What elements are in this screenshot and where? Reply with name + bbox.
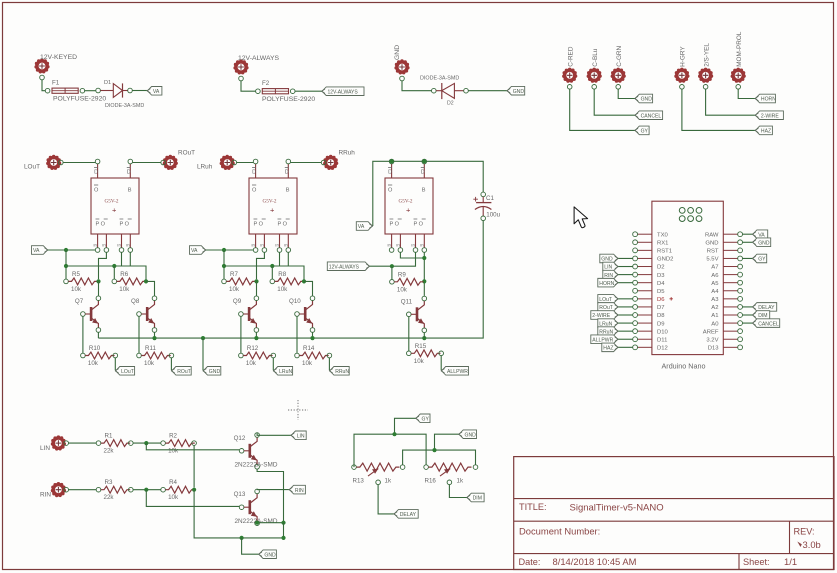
net flag GND (pots) — [459, 430, 477, 439]
svg-text:A0: A0 — [711, 321, 719, 327]
svg-text:B: B — [422, 188, 426, 194]
svg-text:RST: RST — [707, 249, 719, 255]
connector pad C-BLu — [587, 48, 602, 83]
svg-text:ALLPWR: ALLPWR — [592, 337, 613, 343]
wire Q10 base to R14 — [296, 316, 298, 353]
svg-text:10k: 10k — [119, 286, 130, 293]
wire relay K2 pin3 down — [279, 252, 281, 266]
wire 12V-ALWAYS to F2 — [241, 81, 256, 91]
net flag ALLPWR (Arduino D11) — [591, 335, 619, 344]
net flag GND (bottom left) — [258, 550, 276, 559]
wire relay K1 pin2 jog — [99, 252, 107, 279]
svg-text:F2: F2 — [262, 80, 270, 87]
wire RIN flag to Arduino pin D3 — [618, 274, 633, 276]
net flag CANCEL (C-BLu) — [635, 111, 663, 120]
net flag VA (Arduino RAW) — [752, 230, 768, 239]
capacitor C1 — [473, 192, 500, 221]
svg-text:D6: D6 — [657, 297, 665, 303]
wire R14 to RRun flag — [328, 358, 330, 371]
svg-text:10k: 10k — [168, 448, 179, 455]
svg-text:D11: D11 — [657, 337, 667, 343]
svg-text:ROuT: ROuT — [177, 369, 191, 375]
resistor R14 — [295, 345, 329, 367]
svg-text:8/14/2018 10:45 AM: 8/14/2018 10:45 AM — [553, 556, 637, 567]
svg-text:R15: R15 — [415, 343, 427, 350]
svg-text:D: D — [127, 170, 131, 176]
svg-text:H-GRY: H-GRY — [680, 46, 687, 67]
mouse cursor — [574, 207, 588, 228]
wire Q11 emitter to bus — [423, 333, 425, 339]
svg-text:Sheet:: Sheet: — [743, 557, 770, 567]
svg-text:Arduino Nano: Arduino Nano — [662, 362, 706, 371]
net flag GY (C-RED) — [635, 126, 650, 135]
svg-text:10k: 10k — [302, 360, 313, 367]
svg-text:D12: D12 — [657, 346, 668, 352]
resistor R15 — [407, 343, 441, 365]
junction R4 right — [192, 488, 196, 492]
net flag HORN (Arduino D4) — [598, 278, 619, 287]
svg-text:+: + — [112, 206, 117, 215]
svg-text:F1: F1 — [52, 80, 60, 87]
diode D2 — [420, 76, 468, 107]
resistor R8 — [270, 271, 304, 293]
pin of pad LRuh — [232, 160, 237, 165]
wire LRuN flag to Arduino pin D9 — [618, 322, 633, 324]
svg-text:ROuT: ROuT — [178, 150, 195, 157]
resistor R2 — [161, 433, 195, 455]
net flag RIN (Arduino D3) — [603, 270, 619, 279]
svg-text:SignalTimer-v5-NANO: SignalTimer-v5-NANO — [570, 503, 664, 514]
svg-text:A2: A2 — [711, 305, 718, 311]
wire R5 to Q7 collector — [98, 281, 100, 296]
svg-text:R16: R16 — [425, 478, 437, 485]
wire C-RED to GY flag — [570, 89, 635, 130]
svg-text:C1: C1 — [486, 195, 494, 202]
relay K2 G5V-2 — [249, 159, 297, 252]
supply pad GND (top) — [394, 45, 410, 75]
pin R15 right — [439, 351, 444, 356]
net flag GND (Arduino GND2) — [600, 254, 619, 263]
potentiometer R13 — [352, 463, 405, 485]
wire Q7 base to R10 — [82, 316, 84, 353]
wire Arduino pin RAW to VA flag — [743, 233, 753, 235]
wire R7 to Q9 collector — [256, 281, 258, 296]
wire junction to Q12 base — [146, 443, 239, 450]
svg-text:2-WIRE: 2-WIRE — [761, 113, 779, 119]
svg-text:Q9: Q9 — [233, 298, 242, 305]
svg-text:GND: GND — [705, 240, 718, 246]
svg-text:GND2: GND2 — [657, 257, 673, 263]
net flag RRun (channel 2) — [329, 367, 349, 376]
wire D1 to VA flag — [132, 90, 147, 92]
transistor Q9 — [233, 296, 259, 332]
svg-text:R13: R13 — [353, 478, 365, 485]
pin of 12V-ALWAYS pad — [239, 76, 244, 81]
resistor R11 — [137, 345, 171, 367]
svg-text:10k: 10k — [71, 286, 82, 293]
pots top rail — [354, 432, 426, 467]
svg-text:LOuT: LOuT — [24, 164, 40, 171]
svg-text:10k: 10k — [229, 286, 240, 293]
wire 2-WIRE flag to Arduino pin D8 — [618, 314, 633, 316]
wire VA down to R5 — [64, 250, 68, 279]
wire LIN flag to Arduino pin D2 — [618, 266, 633, 268]
transistor Q12 — [234, 433, 278, 469]
svg-text:Q8: Q8 — [131, 298, 140, 305]
svg-text:R5: R5 — [72, 271, 80, 278]
pad RRuh — [323, 150, 355, 171]
svg-text:P O: P O — [278, 222, 288, 228]
svg-text:A5: A5 — [711, 281, 719, 287]
net flag LRuN (Arduino D9) — [598, 319, 619, 328]
svg-text:2/S-YEL: 2/S-YEL — [703, 43, 710, 67]
wire GND pad to D2 — [402, 81, 432, 91]
svg-text:D9: D9 — [657, 321, 665, 327]
svg-text:100u: 100u — [486, 212, 500, 219]
svg-text:CANCEL: CANCEL — [758, 321, 779, 327]
wire rail B channel 2 — [224, 264, 304, 282]
wire Q7 emitter to bus — [97, 332, 99, 338]
svg-text:Q13: Q13 — [234, 491, 246, 498]
svg-text:D: D — [94, 170, 98, 176]
svg-text:G5V-2: G5V-2 — [263, 199, 277, 205]
net flag HORN — [755, 94, 776, 103]
svg-text:D4: D4 — [657, 281, 665, 287]
wire HAZ flag to Arduino pin D12 — [618, 346, 633, 348]
wire F2 to 12V-ALWAYS flag — [295, 90, 322, 92]
pin of pad MOM-PROL — [736, 85, 741, 90]
svg-text:D5: D5 — [657, 289, 665, 295]
wire relay K3 pin4 down — [422, 252, 426, 296]
supply pad 12V-ALWAYS — [233, 55, 279, 75]
svg-text:R9: R9 — [398, 271, 406, 278]
wire 2/S-YEL to 2-WIRE flag — [706, 89, 755, 115]
fuse F2 — [256, 80, 316, 103]
wire relay K2 pin2 jog — [257, 252, 265, 279]
wire rail B channel 1 — [66, 264, 146, 282]
wire LOuT flag to Arduino pin D6 — [618, 298, 633, 300]
wire Q9 base to R12 — [240, 316, 242, 353]
net flag DELAY (R13) — [394, 510, 419, 519]
connector pad MOM-PROL — [731, 31, 746, 83]
wire relay K2 pin4 down — [287, 252, 289, 266]
wire LOuT pad to relay K1 pin — [63, 162, 95, 164]
wire C1 down to bus — [415, 221, 484, 341]
wire R2 down to R4 node — [193, 445, 195, 487]
wire Q9 emitter to bus — [255, 332, 257, 338]
svg-text:VA: VA — [358, 224, 365, 230]
resistor R6 — [112, 271, 146, 293]
svg-text:P O: P O — [96, 222, 106, 228]
svg-text:D: D — [285, 170, 289, 176]
pad ROuT — [163, 150, 195, 171]
wire down to R9 — [391, 266, 393, 279]
svg-text:D13: D13 — [708, 346, 720, 352]
svg-text:12V-ALWAYS: 12V-ALWAYS — [328, 89, 359, 95]
junction R5 right — [96, 279, 100, 283]
wire RRuN flag to Arduino pin D10 — [618, 330, 633, 332]
svg-text:22k: 22k — [104, 448, 115, 455]
wire RIN pad to R3 — [69, 489, 97, 491]
wire relay K2 to RRuh pad — [291, 162, 322, 164]
net flag CANCEL (Arduino A0) — [752, 319, 780, 328]
svg-text:VA: VA — [33, 248, 40, 254]
svg-text:D8: D8 — [657, 313, 665, 319]
svg-text:12V-ALWAYS: 12V-ALWAYS — [329, 264, 360, 270]
transistor Q10 — [289, 296, 315, 332]
svg-text:A7: A7 — [711, 265, 718, 271]
svg-text:R6: R6 — [120, 271, 128, 278]
connector pad 2/S-YEL — [698, 43, 713, 83]
net flag LOuT (Arduino D6) — [598, 295, 619, 304]
svg-text:Q11: Q11 — [401, 298, 413, 305]
wire Arduino pin A0 to CANCEL flag — [743, 322, 753, 324]
pin of pad C-GRN — [616, 85, 621, 90]
svg-text:RRuh: RRuh — [339, 150, 356, 157]
svg-text:A3: A3 — [711, 297, 719, 303]
svg-text:D2: D2 — [657, 265, 665, 271]
svg-text:ROuT: ROuT — [599, 305, 613, 311]
svg-text:DIM: DIM — [473, 496, 482, 502]
pin of pad 2/S-YEL — [703, 85, 708, 90]
pad LOuT — [24, 155, 61, 171]
pad RIN — [40, 482, 66, 499]
svg-text:DIM: DIM — [758, 313, 767, 319]
wire bus to GND flag — [202, 338, 204, 370]
junction R8 right — [302, 279, 306, 283]
svg-text:R7: R7 — [230, 271, 238, 278]
svg-text:LRuN: LRuN — [279, 369, 292, 375]
svg-text:C-GRN: C-GRN — [616, 45, 623, 66]
svg-text:RST1: RST1 — [657, 249, 672, 255]
svg-text:2N2222A-SMD: 2N2222A-SMD — [235, 462, 278, 469]
emitter bus channel 2 — [254, 336, 414, 340]
svg-text:R4: R4 — [169, 479, 177, 486]
svg-text:GND: GND — [513, 89, 525, 95]
wire Q12 emitter down — [257, 469, 283, 523]
svg-text:VA: VA — [758, 232, 765, 238]
net flag ROuT (channel 1) — [171, 367, 191, 376]
svg-text:O: O — [388, 188, 393, 194]
wire LIN pad to R1 — [69, 442, 97, 444]
svg-text:+: + — [406, 206, 411, 215]
svg-text:O: O — [94, 188, 99, 194]
svg-text:R14: R14 — [303, 345, 315, 352]
svg-text:RRuN: RRuN — [599, 329, 613, 335]
pin of pad LOuT — [59, 160, 64, 165]
svg-text:GND: GND — [209, 369, 221, 375]
wire R16 wiper to DIM flag — [449, 485, 466, 498]
svg-text:P O: P O — [254, 222, 264, 228]
pad LIN — [40, 435, 66, 452]
svg-text:GND: GND — [641, 97, 653, 103]
svg-text:DIODE-3A-SMD: DIODE-3A-SMD — [420, 76, 459, 82]
net flag LRun (channel 2) — [273, 367, 293, 376]
net flag DIM (Arduino A1) — [752, 311, 770, 320]
svg-text:10k: 10k — [414, 358, 425, 365]
net flag GND (C-GRN) — [635, 94, 653, 103]
wire C-GRN to GND flag — [618, 89, 634, 98]
svg-text:1/1: 1/1 — [784, 556, 797, 567]
pots bottom rail — [403, 448, 476, 465]
svg-text:A1: A1 — [711, 313, 718, 319]
svg-text:B: B — [128, 188, 132, 194]
wire 12V-KEYED to F1 — [42, 80, 45, 91]
svg-text:GND: GND — [601, 257, 613, 263]
svg-text:P O: P O — [414, 222, 424, 228]
pin of pad ROuT — [161, 160, 166, 165]
wire H-GRY to HAZ flag — [682, 89, 755, 130]
wire R12 to LRun flag — [272, 358, 274, 371]
net flag HAZ (Arduino D12) — [602, 343, 619, 352]
svg-text:REV:: REV: — [794, 527, 815, 537]
svg-text:D2: D2 — [447, 101, 454, 107]
net flag ROuT (Arduino D7) — [598, 303, 619, 312]
svg-text:R11: R11 — [145, 345, 156, 352]
potentiometer R16 — [424, 463, 478, 485]
net flag VA (relay K3) — [356, 222, 373, 231]
svg-text:R1: R1 — [105, 433, 113, 440]
wire relay K3 top rail — [373, 159, 483, 226]
op-amp U1 Arduino Nano — [633, 201, 743, 370]
svg-text:Q7: Q7 — [75, 298, 84, 305]
svg-text:10k: 10k — [397, 286, 408, 293]
pin R2 right — [192, 441, 197, 446]
wire ROuT flag to Arduino pin D7 — [618, 306, 633, 308]
svg-text:5.5V: 5.5V — [706, 257, 718, 263]
wire node down to bus — [281, 523, 285, 540]
diode D1 — [96, 80, 145, 109]
title block — [514, 457, 834, 570]
resistor R12 — [239, 345, 273, 367]
svg-text:R12: R12 — [247, 345, 259, 352]
pin R14 right — [327, 353, 332, 358]
wire GND flag to pots — [435, 434, 459, 450]
pin R12 right — [271, 353, 276, 358]
pin of 12V-KEYED pad — [40, 75, 45, 80]
transistor Q13 — [234, 489, 278, 525]
pin of pad LIN — [64, 441, 69, 446]
wire R1 to junction — [133, 441, 161, 445]
pin of pad RRuh — [321, 160, 326, 165]
junction R6 right — [144, 279, 148, 283]
net flag RRuN (Arduino D10) — [598, 327, 619, 336]
wire GY flag to pots — [395, 418, 416, 434]
pad LRuh — [197, 155, 235, 171]
svg-text:10k: 10k — [246, 360, 257, 367]
wire R10 to LOuT flag — [114, 358, 116, 371]
wire R3 to junction — [133, 488, 161, 492]
svg-text:3.2V: 3.2V — [706, 337, 718, 343]
svg-text:POLYFUSE-2920: POLYFUSE-2920 — [53, 96, 106, 103]
svg-text:2-WIRE: 2-WIRE — [592, 313, 610, 319]
net flag VA (relay K2) — [190, 246, 207, 255]
wire LRuh pad to relay K2 — [237, 162, 254, 164]
wire Q13 emitter to node — [255, 521, 286, 525]
pin R11 right — [169, 353, 174, 358]
svg-text:TX0: TX0 — [657, 232, 669, 238]
wire Arduino pin A2 to DELAY flag — [743, 306, 753, 308]
wire Q8 base to R11 — [138, 316, 140, 353]
wire R13 wiper to DELAY flag — [378, 485, 394, 514]
resistor R10 — [81, 345, 115, 367]
svg-text:Date:: Date: — [519, 557, 541, 567]
svg-text:C-RED: C-RED — [568, 46, 575, 67]
wire Q13 collector to RIN flag — [257, 488, 289, 491]
emitter bus channel 1 — [98, 336, 256, 340]
wire HORN flag to Arduino pin D4 — [618, 282, 633, 284]
svg-text:VA: VA — [153, 89, 160, 95]
net flag LIN (Q12) — [291, 431, 307, 440]
wire R8 to Q10 collector — [304, 281, 313, 296]
wire junction to Q13 base — [146, 490, 239, 507]
svg-text:O: O — [252, 188, 257, 194]
svg-text:Q10: Q10 — [289, 298, 301, 305]
net flag GY (pots) — [416, 414, 431, 423]
svg-text:B: B — [286, 188, 290, 194]
net flag 2-WIRE (Arduino D8) — [591, 311, 619, 320]
wire GND flag to Arduino pin GND2 — [618, 257, 633, 259]
net flag 12V-ALWAYS (top) — [322, 87, 365, 96]
wire relay K1 to ROuT pad — [133, 162, 161, 164]
svg-text:1k: 1k — [385, 478, 392, 485]
wire rail B down to R6 — [113, 266, 115, 279]
svg-text:HAZ: HAZ — [761, 129, 771, 135]
svg-text:10k: 10k — [88, 360, 99, 367]
wire relay K1 pin3 down — [121, 252, 123, 266]
svg-text:D10: D10 — [657, 329, 669, 335]
svg-text:DIODE-3A-SMD: DIODE-3A-SMD — [105, 103, 144, 109]
svg-text:DELAY: DELAY — [758, 305, 775, 311]
relay K3 G5V-2 — [385, 159, 433, 252]
net flag GND (Arduino GND) — [752, 238, 771, 247]
wire Q8 emitter to bus — [154, 332, 156, 338]
svg-text:GND: GND — [394, 45, 401, 60]
pin of GND pad — [400, 76, 405, 81]
svg-text:D1: D1 — [104, 80, 111, 86]
svg-text:GND: GND — [465, 432, 477, 438]
svg-text:RRuN: RRuN — [335, 369, 349, 375]
wire VA to relay K2 coil — [206, 248, 253, 252]
net flag DIM (R16) — [467, 493, 485, 502]
svg-text:POLYFUSE-2920: POLYFUSE-2920 — [262, 96, 315, 103]
svg-text:LOuT: LOuT — [599, 297, 612, 303]
net flag GND (channel 1) — [203, 367, 221, 376]
svg-text:MOM-PROL: MOM-PROL — [736, 31, 743, 67]
svg-text:CANCEL: CANCEL — [641, 113, 662, 119]
net flag GY (Arduino 5.5V) — [752, 254, 767, 263]
svg-text:DELAY: DELAY — [400, 512, 417, 518]
wire C-BLu to CANCEL flag — [594, 89, 634, 115]
svg-text:10k: 10k — [144, 360, 155, 367]
svg-text:C-BLu: C-BLu — [592, 48, 599, 67]
svg-text:12V-ALWAYS: 12V-ALWAYS — [238, 55, 280, 62]
wire relay K1 pin4 down — [129, 252, 131, 266]
wire rail B down to R8 — [271, 266, 273, 279]
resistor R3 — [96, 479, 130, 501]
junction R7 right — [254, 279, 258, 283]
wire Arduino pin GND to GND flag — [743, 241, 753, 243]
connector pad C-RED — [562, 46, 577, 83]
wire relay K3 pin2 jog — [400, 252, 424, 258]
svg-text:VA: VA — [191, 248, 198, 254]
svg-text:D3: D3 — [657, 273, 665, 279]
pin R3 right — [129, 487, 134, 492]
svg-text:D: D — [252, 170, 256, 176]
wire D2 to GND flag — [468, 90, 506, 92]
svg-text:A4: A4 — [711, 289, 719, 295]
svg-text:22k: 22k — [104, 494, 115, 501]
